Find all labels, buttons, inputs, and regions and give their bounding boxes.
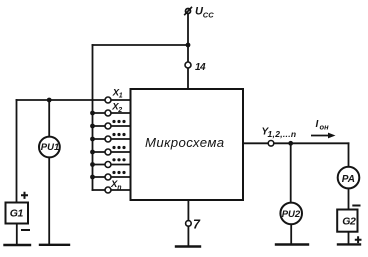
svg-text:14: 14 — [195, 62, 206, 73]
svg-text:G2: G2 — [342, 216, 356, 228]
svg-text:PU2: PU2 — [282, 209, 301, 220]
svg-text:он: он — [320, 123, 330, 132]
svg-text:G1: G1 — [10, 208, 24, 220]
svg-text:PU1: PU1 — [41, 142, 59, 153]
svg-text:PA: PA — [342, 174, 355, 185]
svg-text:n: n — [117, 185, 121, 192]
svg-text:2: 2 — [117, 107, 122, 114]
svg-text:I: I — [316, 119, 319, 130]
svg-text:CC: CC — [203, 11, 214, 20]
svg-text:1: 1 — [119, 93, 123, 100]
svg-text:1,2,...n: 1,2,...n — [268, 129, 297, 139]
svg-text:7: 7 — [193, 218, 201, 232]
svg-text:Микросхема: Микросхема — [145, 135, 225, 150]
